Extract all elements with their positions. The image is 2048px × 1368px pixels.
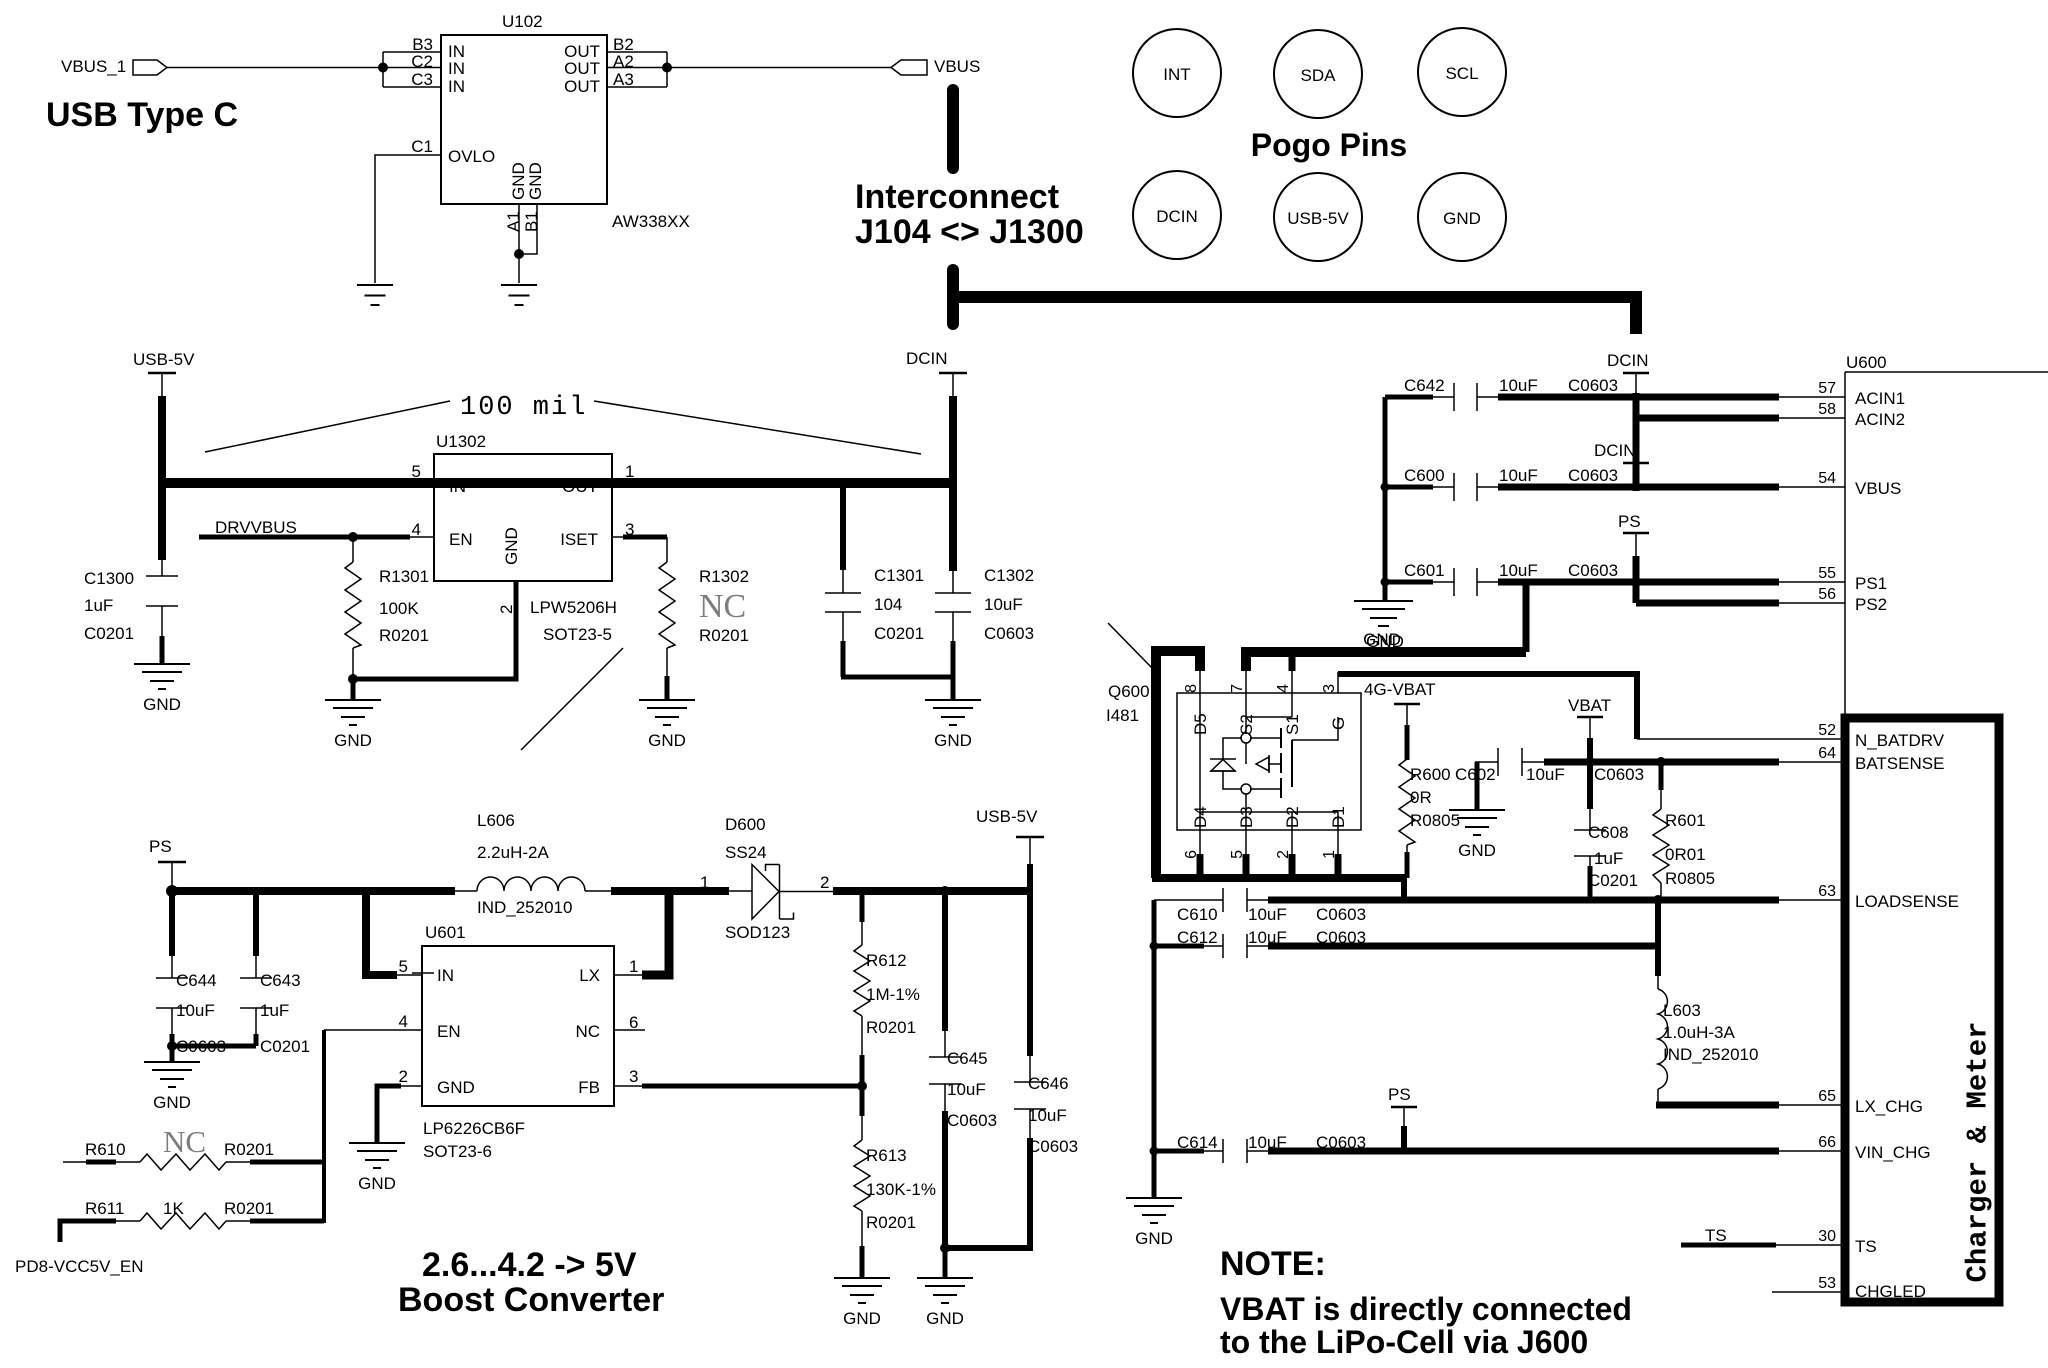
wire VBUS_1 to U102 [167,67,441,69]
svg-text:USB-5V: USB-5V [1287,209,1349,228]
svg-text:55: 55 [1818,565,1836,582]
diode body Q600 [1210,759,1242,789]
mosfet arrow [1256,755,1281,773]
converter U601 body [422,946,614,1106]
wire Q600 top gnd bus [1246,652,1526,671]
svg-text:DRVVBUS: DRVVBUS [215,518,297,537]
svg-text:1: 1 [629,957,638,976]
svg-text:ISET: ISET [560,530,598,549]
svg-text:NC: NC [163,1124,206,1159]
power flag PS right [1618,512,1649,558]
svg-text:SOT23-6: SOT23-6 [423,1142,492,1161]
svg-text:U600: U600 [1846,353,1887,372]
svg-text:PS: PS [149,837,172,856]
ground U102 [501,285,537,305]
wire S2 to source node [1245,693,1247,734]
wire pin C3 stub [383,86,441,88]
svg-text:R0201: R0201 [866,1018,916,1037]
svg-text:R611: R611 [85,1199,124,1218]
resistor R613 [854,1114,870,1278]
capacitor C602 [1475,748,1546,810]
svg-text:100K: 100K [379,599,419,618]
svg-text:C645: C645 [947,1049,988,1068]
node junction C645 rail [940,886,950,896]
pogo pin USB-5V [1274,173,1362,261]
ground R613 [834,1278,890,1328]
svg-text:56: 56 [1818,586,1836,603]
callout line right [594,401,921,454]
ground C610 bus [1126,1198,1182,1248]
svg-text:C610: C610 [1177,905,1218,924]
wire pin3 to N_BATDRV [1338,674,1637,739]
svg-text:C1302: C1302 [984,566,1034,585]
svg-text:N_BATDRV: N_BATDRV [1855,731,1945,750]
svg-text:C0603: C0603 [1568,376,1618,395]
wire LOADSENSE row [1268,897,1779,904]
wire DRVVBUS to EN [199,535,410,540]
svg-text:1K: 1K [163,1199,184,1218]
callout line left [205,401,450,452]
svg-text:10uF: 10uF [1499,376,1538,395]
svg-text:C608: C608 [1588,823,1629,842]
svg-text:SOD123: SOD123 [725,923,790,942]
resistor R612 [854,891,870,1057]
node junction R1301 top [348,532,358,542]
wire DCIN right vertical [1633,393,1640,491]
svg-text:1uF: 1uF [84,596,113,615]
svg-text:53: 53 [1818,1275,1836,1292]
svg-text:R600: R600 [1410,765,1451,784]
svg-text:NC: NC [699,588,746,625]
svg-text:PS2: PS2 [1855,595,1887,614]
svg-text:Boost Converter: Boost Converter [398,1281,664,1319]
svg-text:1M-1%: 1M-1% [866,985,920,1004]
svg-text:LPW5206H: LPW5206H [530,598,617,617]
ground C1302 [925,700,981,750]
svg-text:I481: I481 [1106,706,1139,725]
svg-text:GND: GND [502,527,521,565]
capacitor C1302 [935,569,971,700]
svg-text:GND: GND [1443,209,1481,228]
mosfet channel dashes [1280,728,1282,798]
svg-text:LP6226CB6F: LP6226CB6F [423,1119,525,1138]
ground Q600 top [1354,601,1410,649]
wire GND pin A1 stub [518,204,520,254]
wire C644 to ground [170,1044,175,1062]
capacitor C612 [1154,934,1270,958]
svg-text:SS24: SS24 [725,843,767,862]
svg-text:C0603: C0603 [1568,466,1618,485]
net flag VBUS [891,57,980,76]
resistor R1302 [659,537,675,677]
svg-text:LX_CHG: LX_CHG [1855,1097,1923,1116]
wire C643 to C644 gnd tie [170,1044,256,1049]
svg-text:66: 66 [1818,1134,1836,1151]
wire C646 gnd tie [943,1245,1033,1251]
svg-text:ACIN1: ACIN1 [1855,389,1905,408]
svg-text:to the LiPo-Cell via J600: to the LiPo-Cell via J600 [1220,1324,1588,1360]
svg-text:C600: C600 [1404,466,1445,485]
wire pin B3 stub [383,51,441,53]
resistor R601 [1653,762,1669,900]
svg-text:10uF: 10uF [1499,466,1538,485]
wire pin B2 stub [607,51,667,53]
wire C1301 to C1302 gnd tie [841,675,953,680]
svg-text:IN: IN [449,477,466,496]
svg-text:EN: EN [437,1022,461,1041]
svg-text:C0201: C0201 [874,624,924,643]
node junction VBAT batsense [1585,757,1595,767]
svg-text:57: 57 [1818,380,1836,397]
svg-text:R0201: R0201 [224,1199,274,1218]
svg-text:VIN_CHG: VIN_CHG [1855,1143,1931,1162]
wire drain tie D pins [1200,811,1338,813]
svg-text:IN: IN [437,966,454,985]
capacitor C644 [156,891,188,1046]
svg-text:GND: GND [1363,630,1401,649]
svg-text:10uF: 10uF [1248,905,1287,924]
capacitor C608 [1574,807,1606,900]
wire vertical tie B2-A2-A3 [666,52,668,87]
wire main 5V rail [158,478,953,488]
svg-text:52: 52 [1818,722,1836,739]
svg-text:C0603: C0603 [1568,561,1618,580]
wire Q600 pin4 stub [1289,652,1296,671]
power flag PS bottom [1388,1085,1417,1151]
wire interconnect VBUS thick stub [947,90,959,168]
svg-text:VBAT is directly connected: VBAT is directly connected [1220,1291,1632,1327]
svg-text:4G-VBAT: 4G-VBAT [1364,680,1435,699]
wire gate link [1292,717,1338,740]
wire FB to divider [614,1085,644,1087]
power flag DCIN left [906,349,967,398]
wire EN vertical [322,1030,326,1223]
wire ACIN1 row [1498,394,1779,401]
svg-text:2.2uH-2A: 2.2uH-2A [477,843,549,862]
node junction loadsense L603 [1653,895,1663,905]
node junction C600 bus [1381,483,1390,492]
svg-text:2: 2 [820,873,829,892]
svg-text:6: 6 [629,1013,638,1032]
svg-text:NOTE:: NOTE: [1220,1245,1326,1283]
pogo pin SCL [1418,28,1506,116]
wire VBAT vertical [1587,738,1593,809]
svg-text:10uF: 10uF [947,1080,986,1099]
svg-text:65: 65 [1818,1088,1836,1105]
wire PS1 row [1498,579,1779,586]
wire CHGLED row [1772,1291,1845,1293]
svg-text:TS: TS [1705,1226,1727,1245]
svg-text:AW338XX: AW338XX [612,212,690,231]
wire DCIN bus to right [953,297,1636,334]
svg-text:C0201: C0201 [1588,871,1638,890]
resistor R610 [63,1154,324,1170]
svg-text:10uF: 10uF [176,1001,215,1020]
node junction C614 bus [1150,1147,1159,1156]
svg-text:GND: GND [437,1078,475,1097]
svg-text:63: 63 [1818,883,1836,900]
pogo pin GND [1418,173,1506,261]
mosfet drain contact circle [1241,784,1251,794]
charger U600 core box [1845,718,1999,1302]
svg-text:3: 3 [629,1067,638,1086]
svg-text:U601: U601 [425,923,466,942]
svg-text:2: 2 [399,1067,408,1086]
node junction VBUS out [662,63,672,73]
wire drain horizontal to channel [1250,788,1281,790]
svg-text:OUT: OUT [562,477,598,496]
wire BATSENSE row [1544,759,1779,766]
wire D4 line below [1199,830,1201,856]
capacitor C1300 [146,558,178,664]
resistor R600 [1399,725,1415,878]
wire USB-5V vertical [158,396,166,560]
wire GND pin B1 stub [519,204,537,254]
transistor Q600 inner body [1177,693,1361,830]
wire PS right vertical [1633,556,1640,603]
node junction PS rail [166,885,178,897]
wire bus riser to loadsense [1401,878,1407,902]
wire N_BATDRV row [1637,738,1845,740]
svg-text:DCIN: DCIN [1594,441,1636,460]
pogo pin DCIN [1133,171,1221,259]
svg-text:C643: C643 [260,971,301,990]
wire L603 riser [1655,900,1661,976]
svg-text:C601: C601 [1404,561,1445,580]
svg-text:R1302: R1302 [699,567,749,586]
svg-text:IND_252010: IND_252010 [1663,1045,1758,1064]
mosfet source contact circle [1241,733,1251,743]
wire EN stub [324,1029,422,1031]
ground R1301 [325,700,381,750]
svg-text:SOT23-5: SOT23-5 [543,625,612,644]
wire interconnect DCIN thick stub [947,270,959,324]
wire OVLO to ground [375,155,441,283]
pogo pin SDA [1274,30,1362,118]
svg-text:64: 64 [1818,745,1836,762]
pogo pin INT [1133,29,1221,117]
wire source horizontal to channel [1250,737,1281,739]
power flag USB-5V boost [976,807,1044,891]
net flag VBUS_1 [61,57,167,76]
svg-text:R0201: R0201 [379,626,429,645]
svg-text:USB Type C: USB Type C [46,96,238,134]
svg-text:0R01: 0R01 [1665,845,1706,864]
op-amp U102 body [441,35,607,204]
capacitor C645 [929,891,961,1248]
svg-text:C642: C642 [1404,376,1445,395]
svg-text:LOADSENSE: LOADSENSE [1855,892,1959,911]
node junction C644 gnd tie [167,1041,177,1051]
wire GND pin to ground [400,1085,422,1087]
wire LX riser [642,891,669,975]
svg-text:R612: R612 [866,951,907,970]
wire A2 out to VBUS [607,67,891,69]
svg-text:DCIN: DCIN [906,349,948,368]
svg-text:R0201: R0201 [699,626,749,645]
wire TS row [1681,1243,1776,1248]
wire GND pins to ground [518,254,520,283]
svg-text:10uF: 10uF [1526,765,1565,784]
svg-text:BATSENSE: BATSENSE [1855,754,1944,773]
capacitor C643 [240,891,272,1046]
power flag VBAT [1568,696,1611,740]
svg-text:J104 <> J1300: J104 <> J1300 [855,213,1084,251]
svg-text:VBUS: VBUS [1855,479,1901,498]
svg-text:30: 30 [1818,1228,1836,1245]
diode D600 [729,865,835,920]
capacitor C646 [1014,891,1046,1248]
svg-text:R0805: R0805 [1665,869,1715,888]
ground U601 [349,1143,405,1193]
wire R1302 to ground [665,676,670,700]
svg-text:100 mil: 100 mil [460,393,587,423]
svg-text:R1301: R1301 [379,567,429,586]
svg-text:58: 58 [1818,401,1836,418]
node junction VBUS_1 [378,63,388,73]
svg-text:VBUS_1: VBUS_1 [61,57,126,76]
svg-text:L606: L606 [477,811,515,830]
svg-text:NC: NC [575,1022,600,1041]
node junction FB [857,1081,867,1091]
node junction C601 bus [1381,578,1390,587]
svg-text:GND: GND [526,162,545,200]
svg-text:Pogo Pins: Pogo Pins [1251,127,1407,163]
svg-text:C1300: C1300 [84,569,134,588]
ground C642 bus [1357,601,1413,651]
svg-text:C0201: C0201 [84,624,134,643]
svg-text:1uF: 1uF [260,1001,289,1020]
svg-text:5: 5 [412,462,421,481]
wire PS2 row [1636,600,1779,607]
ground C644 [144,1062,200,1112]
capacitor C601 [1385,568,1500,596]
wire U601 IN riser [366,891,397,975]
svg-text:Charger & Meter: Charger & Meter [1962,1021,1995,1282]
svg-text:IN: IN [448,77,465,96]
ground C645 [917,1278,973,1328]
wire NC stub [614,1029,645,1031]
svg-text:C644: C644 [176,971,217,990]
body diode detour [1223,738,1242,759]
wire D3 line [1245,794,1247,856]
wire gnd bus C610 column [1152,900,1157,1198]
svg-text:C0603: C0603 [1316,905,1366,924]
svg-text:54: 54 [1818,470,1836,487]
wire source node vertical [1245,743,1247,764]
ground R1302 [639,700,695,750]
wire R612 bottom through FB [860,1055,865,1116]
capacitor C642 [1385,383,1500,411]
svg-text:130K-1%: 130K-1% [866,1180,936,1199]
power flag DCIN mid [1594,441,1649,463]
svg-text:EN: EN [449,530,473,549]
svg-text:C602: C602 [1455,765,1496,784]
svg-text:R610: R610 [85,1140,126,1159]
node junction GND pins [514,249,524,259]
svg-text:4: 4 [399,1012,408,1031]
svg-text:A1: A1 [504,211,523,232]
svg-text:USB-5V: USB-5V [976,807,1038,826]
svg-text:3: 3 [1321,684,1338,693]
svg-text:0R: 0R [1410,788,1432,807]
svg-text:SCL: SCL [1445,64,1478,83]
svg-text:R613: R613 [866,1146,907,1165]
svg-text:C1: C1 [411,137,433,156]
wire bottom pin stubs [1197,854,1204,874]
svg-text:C646: C646 [1028,1074,1069,1093]
svg-text:7: 7 [1229,684,1246,693]
svg-text:OUT: OUT [564,77,600,96]
wire C612 row [1268,943,1661,950]
svg-text:SDA: SDA [1301,66,1337,85]
svg-text:IND_252010: IND_252010 [477,898,572,917]
svg-text:8: 8 [1183,684,1200,693]
svg-text:TS: TS [1855,1237,1877,1256]
svg-text:10uF: 10uF [984,595,1023,614]
svg-text:2: 2 [497,605,516,614]
node junction C612 bus [1150,942,1159,951]
charger U600 outline [1845,353,2048,716]
wire LX_CHG row [1656,1102,1779,1109]
ground C1300 [134,664,190,714]
ground C602 [1449,810,1505,860]
svg-text:DCIN: DCIN [1607,351,1649,370]
svg-text:5: 5 [399,957,408,976]
svg-text:U1302: U1302 [436,432,486,451]
wire S2-S1 tie [1246,716,1292,718]
power flag PS left [149,837,186,888]
svg-text:PS1: PS1 [1855,574,1887,593]
wire L606 to D600 [611,887,729,895]
svg-text:4: 4 [412,520,421,539]
wire U1302 GND pin 2 [353,581,516,700]
svg-text:1uF: 1uF [1594,849,1623,868]
wire Q600 bottom bus [1152,874,1407,882]
svg-text:104: 104 [874,595,902,614]
power flag USB-5V left [133,350,195,398]
svg-text:R601: R601 [1665,811,1706,830]
svg-text:USB-5V: USB-5V [133,350,195,369]
wire pin lines top [1199,669,1201,693]
svg-text:ACIN2: ACIN2 [1855,410,1905,429]
svg-text:OVLO: OVLO [448,147,495,166]
svg-text:R0201: R0201 [866,1213,916,1232]
mosfet gate bar [1291,740,1293,787]
svg-text:VBUS: VBUS [934,57,980,76]
svg-text:C0603: C0603 [984,624,1034,643]
svg-text:C3: C3 [411,70,433,89]
wire ACIN2 row [1636,415,1779,422]
svg-text:R0201: R0201 [224,1140,274,1159]
resistor R611 [60,1213,324,1242]
svg-text:C0603: C0603 [1028,1137,1078,1156]
svg-text:PS: PS [1618,512,1641,531]
svg-text:IN: IN [448,59,465,78]
wire D2 line [1291,812,1293,856]
svg-text:U102: U102 [502,12,543,31]
leader line Q600 [1108,623,1152,668]
wire VIN_CHG row [1268,1148,1779,1155]
svg-text:FB: FB [578,1078,600,1097]
svg-text:B1: B1 [522,211,541,232]
svg-text:1: 1 [625,462,634,481]
wire ISET stub [612,536,625,538]
svg-text:10uF: 10uF [1499,561,1538,580]
svg-text:C1301: C1301 [874,566,924,585]
wire pin A3 stub [607,86,667,88]
power flag 4G-VBAT [1364,680,1435,727]
